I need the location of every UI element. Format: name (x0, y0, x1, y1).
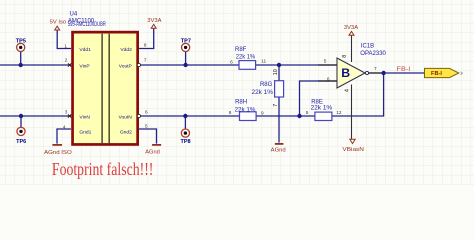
resistor R8G body (275, 81, 284, 97)
wire TP7 vertical (185, 52, 187, 65)
wire R8H to R8E node (256, 115, 315, 117)
svg-text:2: 2 (65, 58, 68, 63)
power port VBiasN (342, 139, 364, 153)
svg-text:595-AMC1100DUBR: 595-AMC1100DUBR (68, 22, 106, 28)
svg-text:4: 4 (63, 124, 66, 129)
svg-text:5: 5 (306, 110, 309, 115)
svg-text:VoutP: VoutP (119, 64, 132, 70)
test point TP5 (17, 43, 25, 51)
svg-text:FB-I: FB-I (397, 66, 411, 73)
svg-text:B: B (341, 66, 350, 80)
op-amp IC1B body (337, 58, 365, 88)
svg-text:TP7: TP7 (181, 38, 191, 44)
svg-text:AGnd: AGnd (271, 148, 286, 154)
svg-text:R8E: R8E (311, 99, 323, 105)
op-amp pin 6 stub (318, 80, 337, 82)
test point TP7 (182, 43, 190, 51)
svg-text:3: 3 (65, 109, 68, 114)
svg-text:8: 8 (144, 42, 147, 47)
ground AGnd ISO (44, 145, 72, 156)
svg-text:Gnd1: Gnd1 (79, 130, 91, 136)
svg-text:9: 9 (261, 111, 264, 116)
junction TP6 (19, 114, 23, 118)
resistor R8H body (240, 112, 257, 121)
svg-text:VinP: VinP (79, 64, 89, 70)
svg-text:7: 7 (144, 58, 147, 63)
no-ERC cross pin 3 (68, 114, 71, 117)
svg-text:Gnd2: Gnd2 (120, 130, 132, 136)
svg-text:OPA2330: OPA2330 (360, 51, 386, 57)
resistor R8F body (239, 61, 256, 70)
wire op-amp pin 8 to 3V3A (351, 35, 353, 62)
no-ERC cross pin 2 (68, 63, 71, 66)
svg-text:5: 5 (324, 59, 327, 64)
wire upper main left (net to VinP) (0, 64, 71, 66)
wire TP6 vertical (20, 116, 22, 127)
svg-text:AGnd ISO: AGnd ISO (44, 150, 72, 156)
svg-text:12: 12 (336, 110, 342, 115)
op-amp pin 7 stub (369, 72, 384, 74)
svg-text:TP5: TP5 (16, 38, 26, 44)
wire R8E to feedback corner (332, 73, 384, 116)
power port 3V3A (U4) (147, 18, 161, 28)
svg-text:6: 6 (230, 60, 233, 65)
wire R8F out to R8G top junction (278, 65, 280, 81)
sheet entry arrow right of port (461, 72, 463, 75)
svg-text:4: 4 (344, 89, 350, 92)
power port 3V3A (op-amp) (344, 25, 358, 35)
svg-text:FB-I: FB-I (431, 71, 443, 77)
junction inverting node (297, 114, 301, 118)
svg-text:5: 5 (145, 124, 148, 129)
svg-text:Vdd2: Vdd2 (120, 47, 132, 53)
output bubble pin 7 (137, 63, 140, 66)
svg-text:22k 1%: 22k 1% (235, 107, 256, 113)
port FB-I (425, 68, 459, 77)
power port 5V Iso (50, 19, 66, 30)
junction R8F/R8G node (277, 63, 281, 67)
svg-text:R8F: R8F (235, 47, 247, 53)
wire TP8 vertical (184, 116, 186, 129)
wire TP5 vertical (20, 52, 22, 65)
svg-text:IC1B: IC1B (361, 44, 374, 50)
svg-text:6: 6 (145, 109, 148, 114)
op-amp pin 5 stub (318, 64, 337, 66)
svg-text:22k 1%: 22k 1% (311, 106, 333, 112)
output bubble op-amp (365, 71, 368, 74)
svg-text:22k 1%: 22k 1% (252, 90, 274, 96)
test point TP8 (181, 129, 189, 137)
wire pin 5 to AGnd (137, 129, 157, 144)
junction TP5 (19, 63, 23, 67)
wire pin 8 to 3V3A (137, 29, 154, 49)
junction output node (381, 71, 385, 75)
wire pin 4 to AGnd ISO (57, 129, 71, 144)
ground AGnd (R8G) (271, 144, 286, 154)
wire upper main right (VoutP to op-amp pin 5) (141, 64, 337, 66)
svg-text:R8H: R8H (235, 100, 247, 106)
svg-text:8: 8 (342, 55, 348, 58)
svg-text:3V3A: 3V3A (147, 18, 161, 24)
wire R8G bottom to AGnd (278, 97, 280, 143)
svg-text:VoutN: VoutN (118, 114, 132, 120)
svg-text:TP6: TP6 (16, 139, 26, 145)
svg-text:R8G: R8G (260, 82, 273, 88)
wire op-amp pin 6 to lower node (300, 81, 338, 116)
junction TP7 (183, 63, 187, 67)
svg-text:6: 6 (327, 76, 330, 81)
test point TP6 (17, 127, 25, 135)
wire op-amp pin 4 to VBiasN (351, 85, 353, 140)
svg-text:U4: U4 (70, 12, 78, 18)
svg-text:VinN: VinN (79, 114, 90, 120)
resistor R8E body (315, 112, 332, 120)
wire lower main left (net to VinN) (0, 115, 71, 117)
wire op-amp output to port FB-I (369, 72, 425, 74)
wire lower main (VoutN to R8H) (141, 115, 239, 117)
ground AGnd (Gnd2) (145, 145, 161, 155)
svg-text:7: 7 (273, 104, 279, 107)
svg-text:8: 8 (229, 110, 232, 115)
svg-text:11: 11 (261, 58, 266, 63)
wire 5V Iso to pin 1 (57, 30, 71, 49)
svg-text:AGnd: AGnd (145, 149, 160, 155)
svg-text:22k 1%: 22k 1% (236, 55, 256, 61)
output bubble pin 6 (137, 114, 140, 117)
junction TP8 (183, 114, 187, 118)
svg-text:10: 10 (273, 69, 279, 75)
svg-text:1: 1 (64, 44, 67, 49)
svg-text:TP8: TP8 (181, 139, 191, 145)
component U4 AMC1100 body (73, 32, 138, 144)
svg-text:7: 7 (374, 66, 377, 71)
svg-text:3V3A: 3V3A (344, 25, 358, 31)
svg-text:5V Iso: 5V Iso (50, 19, 66, 25)
svg-text:VBiasN: VBiasN (342, 147, 364, 153)
svg-text:Vdd1: Vdd1 (79, 47, 91, 53)
svg-text:Footprint falsch!!!: Footprint falsch!!! (52, 159, 153, 179)
